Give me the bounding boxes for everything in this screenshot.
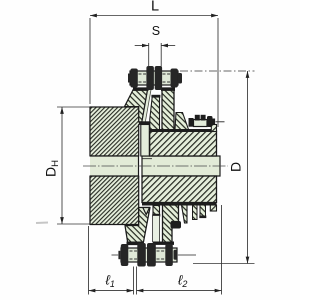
svg-text:S: S (152, 24, 160, 38)
right shaft (142, 156, 220, 176)
left hub upper half (90, 107, 142, 156)
top bolt right stub (178, 73, 182, 84)
dimension S arrows (135, 45, 149, 47)
left hub lower arm (125, 208, 150, 245)
right flange arm lower (163, 205, 179, 244)
lower sleeve block (142, 176, 217, 203)
collar strip lower (153, 206, 160, 216)
dimension S extension lines (149, 43, 162, 67)
dimension l1 line (89, 290, 134, 292)
top bolt left stub (128, 74, 131, 83)
bottom bolt rings (121, 244, 129, 266)
small bolt on right hub top: body (194, 120, 208, 127)
small bolt ring nut (207, 116, 213, 127)
top bolt: shank (130, 71, 178, 85)
collar strip upper (150, 96, 160, 130)
bottom bolt right stub (174, 250, 178, 260)
lower wedge detail (143, 208, 150, 215)
upper sleeve block (150, 131, 217, 156)
top bolt hidden dashes (139, 74, 171, 82)
left hub upper arm (125, 88, 148, 122)
small bolt stub + line (213, 119, 216, 125)
right flange arm upper (162, 88, 174, 131)
bottom bolt needle lines (112, 254, 197, 256)
lower small block b (200, 205, 206, 217)
right face rim bottom (210, 205, 216, 211)
faint scan smudge (36, 222, 48, 225)
bottom bolt: shank (121, 248, 177, 262)
dimension D line (247, 71, 249, 264)
arm face green band (142, 88, 152, 122)
step block right of arm (175, 113, 189, 130)
lower small block a (193, 205, 198, 220)
shaft centerline (83, 165, 228, 167)
dimension L line (90, 15, 218, 17)
thin plate on hub face (141, 125, 150, 157)
thick bearing bars under/over bolts (133, 88, 149, 91)
right face rim top (211, 125, 216, 132)
dimension DH line (61, 107, 63, 224)
left shaft (90, 156, 139, 176)
keyway line right shaft (142, 158, 152, 160)
top bolt rings (130, 69, 137, 88)
lower step strip (182, 205, 188, 223)
dimension D extension lines (180, 70, 255, 72)
svg-text:L: L (151, 0, 159, 15)
lower small bolt dark nut (171, 221, 182, 229)
svg-text:D: D (228, 162, 244, 172)
bottom bolt left washer (118, 251, 120, 259)
dimension L extension lines (90, 18, 218, 127)
bottom extension lines (89, 205, 222, 295)
dimension DH extension lines (57, 107, 90, 224)
small bolt nut top (195, 115, 200, 121)
left hub lower half (90, 176, 139, 225)
dimension l2 line (137, 290, 222, 292)
